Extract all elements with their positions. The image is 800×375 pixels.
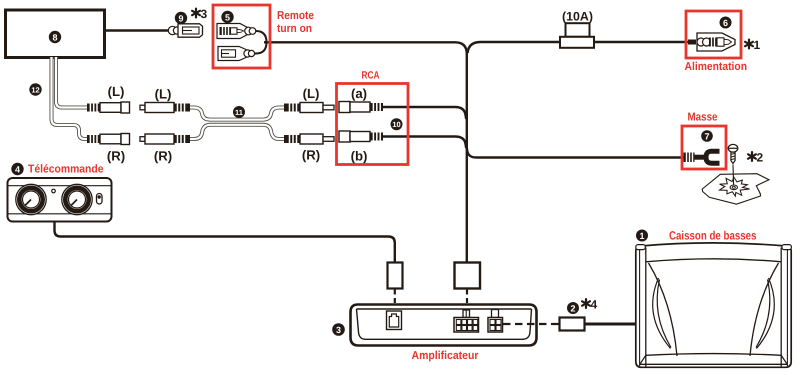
- male RCA plug L right end: [284, 103, 334, 113]
- svg-text:RCA: RCA: [362, 70, 380, 82]
- subwoofer right horn flare: [750, 263, 779, 356]
- svg-text:Télécommande: Télécommande: [28, 164, 104, 176]
- subwoofer left horn flare: [649, 263, 678, 356]
- RCA jack b: [339, 131, 383, 142]
- svg-text:12: 12: [31, 85, 39, 94]
- knob left: [16, 184, 46, 214]
- label *1: [745, 38, 760, 52]
- subwoofer bottom band: [640, 354, 787, 365]
- label 2: [567, 302, 579, 314]
- svg-text:(L): (L): [303, 86, 320, 101]
- svg-text:(L): (L): [108, 84, 125, 99]
- dashed remote plug to amp: [394, 290, 396, 305]
- svg-text:(R): (R): [107, 149, 125, 164]
- label 11: [233, 106, 245, 118]
- svg-text:(a): (a): [351, 86, 367, 101]
- chassis ground plate: [702, 174, 769, 205]
- svg-text:5: 5: [225, 12, 230, 22]
- RCA red box: [337, 84, 409, 165]
- svg-text:(L): (L): [155, 87, 172, 102]
- label 6: [720, 17, 732, 29]
- label 9: [175, 12, 187, 24]
- subwoofer side panels: [646, 248, 781, 367]
- connector 9 blade: [183, 27, 200, 34]
- male RCA plug R right end: [284, 134, 334, 144]
- label *3: [192, 7, 207, 21]
- knob right: [62, 184, 92, 214]
- wire: head unit to connector 9: [104, 29, 172, 31]
- RCA jack a: [339, 102, 383, 113]
- spade connector bottom: [218, 47, 255, 61]
- connector 9 rings: [168, 26, 180, 34]
- svg-text:3: 3: [201, 7, 208, 21]
- speaker wire to subwoofer: [585, 323, 638, 326]
- svg-text:Caisson de basses: Caisson de basses: [669, 229, 757, 243]
- male RCA plug R left end: [140, 134, 190, 144]
- amp 4pin connector: [488, 310, 503, 333]
- svg-text:(R): (R): [154, 149, 172, 164]
- svg-text:9: 9: [178, 13, 183, 23]
- svg-text:4: 4: [15, 164, 20, 174]
- wire RCA a to trunk: [381, 107, 466, 119]
- subwoofer left vent: [653, 278, 671, 349]
- svg-text:11: 11: [235, 108, 243, 117]
- svg-text:Amplificateur: Amplificateur: [412, 350, 479, 362]
- cable 11: upper tube: [190, 108, 284, 120]
- svg-text:2: 2: [757, 151, 764, 165]
- male RCA plug L left end: [140, 103, 190, 113]
- svg-text:7: 7: [704, 131, 709, 141]
- svg-text:Remote: Remote: [277, 10, 314, 22]
- label 7: [701, 130, 713, 142]
- female RCA jack R: [87, 134, 130, 145]
- label 12: [29, 83, 41, 95]
- screw 2: [728, 144, 738, 163]
- masse branch wire: [467, 149, 684, 158]
- dashed amp to connector 2: [503, 323, 560, 325]
- svg-text:1: 1: [754, 38, 761, 52]
- trunk plug: [455, 263, 481, 289]
- label 5: [221, 11, 233, 23]
- svg-text:8: 8: [52, 32, 57, 42]
- svg-text:(10A): (10A): [562, 10, 593, 24]
- bullet connector 6: [688, 33, 735, 51]
- spade connector top: [217, 24, 256, 39]
- remote control body: [8, 178, 112, 222]
- svg-text:3: 3: [336, 325, 341, 335]
- power wire with merge: [468, 42, 692, 53]
- dashed trunk plug to amp: [466, 290, 468, 305]
- amp RJ port: [387, 311, 402, 330]
- alimentation red box: [686, 11, 741, 58]
- label *4: [582, 298, 597, 312]
- head unit box: [6, 10, 105, 58]
- subwoofer side bevels: [640, 250, 788, 367]
- remote wire to plug: [55, 222, 395, 263]
- female RCA jack L: [87, 102, 130, 113]
- svg-text:10: 10: [392, 120, 400, 129]
- svg-text:4: 4: [591, 298, 598, 312]
- svg-text:6: 6: [723, 18, 728, 28]
- svg-text:Masse: Masse: [688, 112, 718, 124]
- remote turn on red box: [213, 5, 270, 68]
- amplifier body: [351, 305, 537, 346]
- label 8: [49, 31, 61, 43]
- scratch star: [720, 177, 750, 196]
- subwoofer corner caps: [636, 245, 792, 250]
- remote lead C-wire: [251, 31, 267, 54]
- label 3: [332, 323, 345, 336]
- svg-text:(b): (b): [351, 148, 368, 163]
- screw guide line: [732, 165, 735, 186]
- label 10: [391, 118, 403, 130]
- masse red box: [682, 126, 726, 169]
- amp 8pin connector: [454, 310, 479, 332]
- subwoofer right vent: [756, 278, 774, 349]
- wire RCA b to trunk: [381, 137, 466, 149]
- connector 2: [560, 318, 585, 331]
- cable 12: lower tube: [52, 57, 88, 139]
- plate hole: [730, 185, 737, 190]
- amplifier inner panel: [357, 309, 532, 339]
- remote plug: [388, 263, 403, 289]
- svg-text:(R): (R): [302, 148, 320, 163]
- cable 11: lower tube: [190, 125, 284, 139]
- fork terminal 7: [684, 151, 720, 163]
- svg-text:Alimentation: Alimentation: [685, 61, 748, 73]
- connector 9 housing: [178, 24, 203, 37]
- svg-text:turn on: turn on: [277, 23, 312, 35]
- svg-text:1: 1: [639, 231, 644, 241]
- switch: [97, 194, 103, 205]
- subwoofer top band: [646, 259, 781, 262]
- label 1: [636, 230, 648, 242]
- remote turn-on wire to trunk: [264, 42, 467, 262]
- subwoofer body: [636, 243, 791, 367]
- label Remote turn on: [277, 10, 314, 35]
- svg-text:2: 2: [570, 303, 575, 313]
- label *2: [748, 151, 763, 165]
- cable 12: upper tube: [56, 57, 88, 108]
- label 4: [11, 163, 23, 175]
- fuse holder: [560, 23, 594, 48]
- led dot: [52, 189, 56, 193]
